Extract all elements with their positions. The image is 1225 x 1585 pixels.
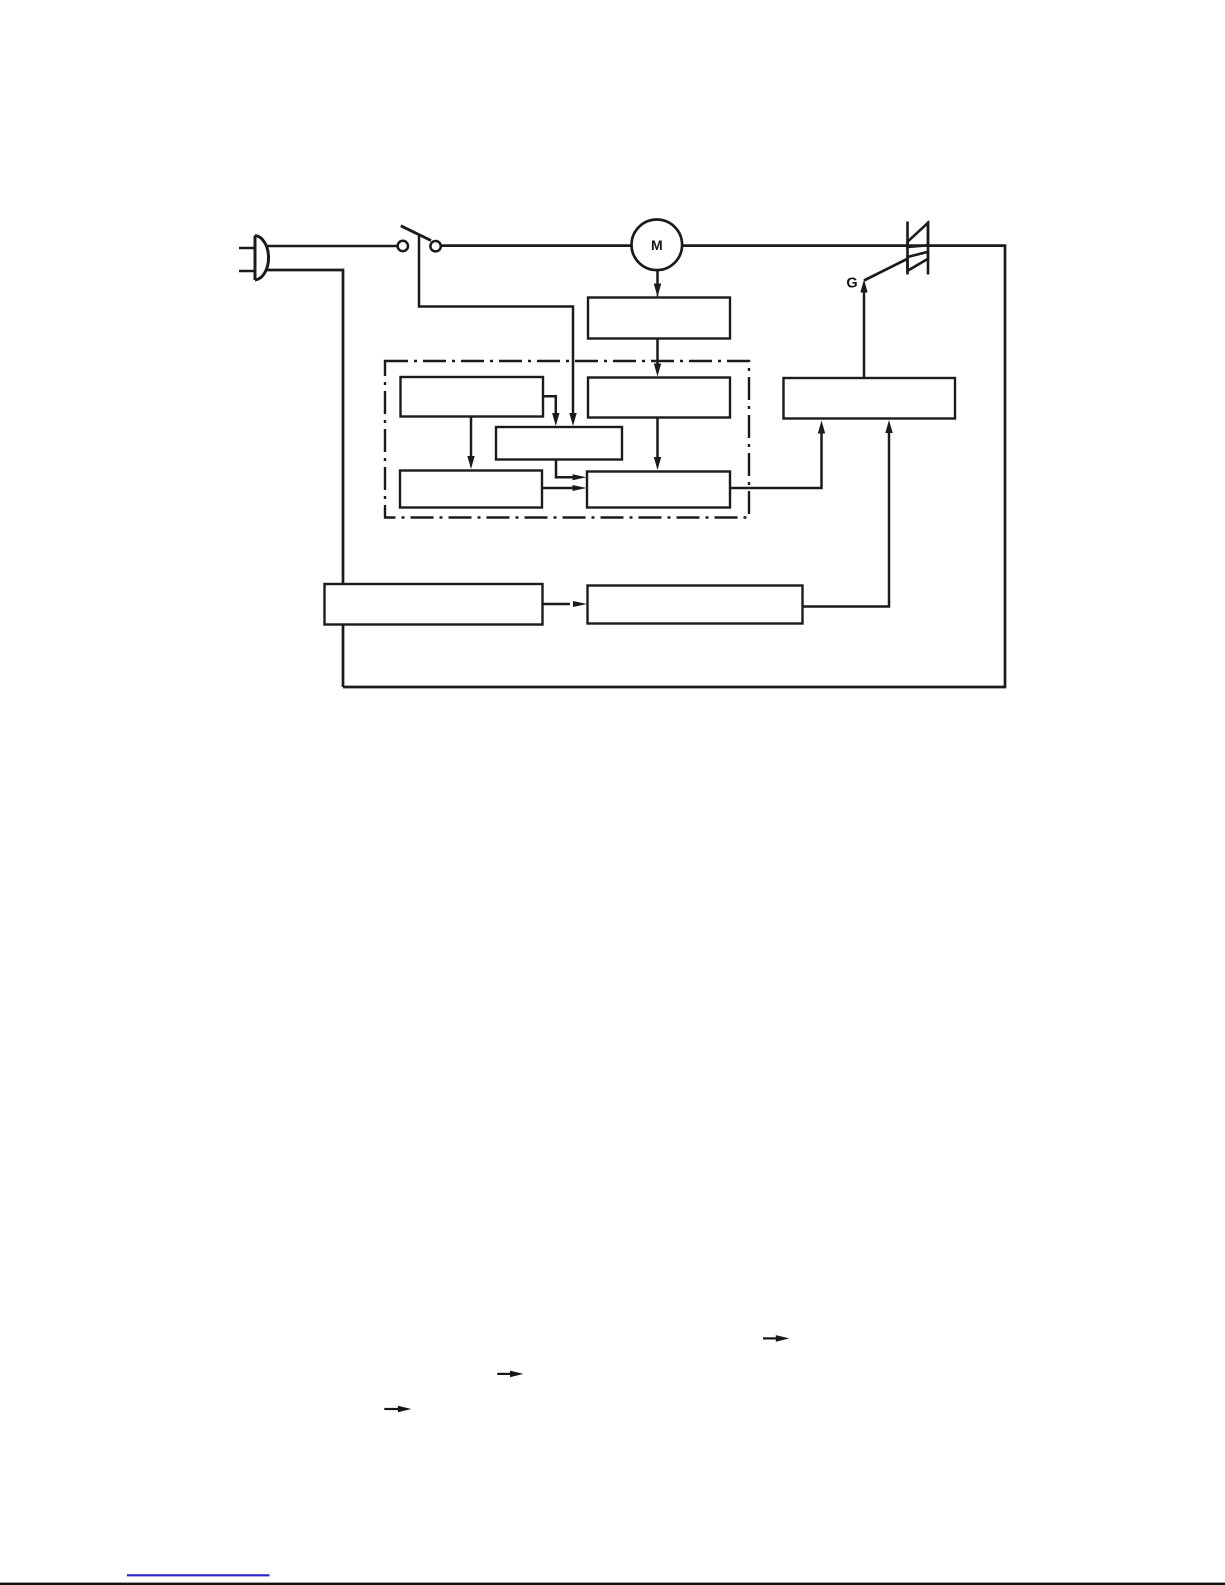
svg-text:G: G xyxy=(846,276,857,292)
svg-text:M: M xyxy=(651,237,663,253)
